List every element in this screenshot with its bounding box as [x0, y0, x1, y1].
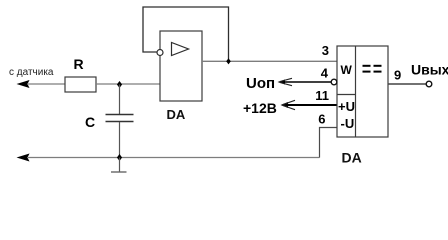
svg-text:+U: +U: [338, 99, 355, 114]
pin 4: circle, wire, arrow, label: [278, 66, 337, 86]
node junction at op-amp output / feedback: [226, 58, 231, 64]
op-amp DA (first stage): [157, 31, 202, 122]
comparator DA (second stage) body: [337, 46, 388, 166]
pin 3 label: [322, 43, 329, 58]
pin 9 label: [394, 68, 401, 83]
arrow: input line arrowhead: [17, 80, 30, 88]
capacitor C: [85, 85, 134, 158]
wire: input to resistor: [27, 83, 65, 85]
svg-text:DA: DA: [342, 150, 362, 166]
svg-text:4: 4: [321, 66, 329, 81]
node junction on rail (C): [117, 154, 122, 161]
node label: с датчика (from sensor): [9, 67, 54, 78]
node label Uвых: [411, 62, 448, 78]
pin 11: wire, arrow, label: [281, 88, 337, 110]
resistor R: [65, 56, 96, 92]
pin 6 label: [318, 112, 325, 127]
wire: op-amp output to comparator pin 3: [202, 60, 337, 62]
svg-text:9: 9: [394, 68, 401, 83]
svg-text:3: 3: [322, 43, 329, 58]
terminal: output circle: [426, 81, 432, 87]
wire: resistor to op-amp input: [96, 83, 160, 85]
wire: bottom common rail: [27, 157, 320, 159]
wire: rail to pin 6: [320, 128, 338, 158]
svg-text:с датчика: с датчика: [9, 67, 54, 78]
svg-text:+12В: +12В: [243, 100, 277, 116]
svg-text:11: 11: [315, 88, 329, 103]
svg-text:Uвых: Uвых: [411, 62, 448, 78]
svg-text:-U: -U: [341, 116, 355, 131]
svg-text:R: R: [74, 56, 84, 72]
arrow: bottom rail arrowhead: [17, 154, 30, 162]
svg-text:W: W: [341, 63, 353, 77]
node label Uоп: [246, 75, 275, 92]
svg-text:6: 6: [318, 112, 325, 127]
svg-text:Uоп: Uоп: [246, 75, 275, 92]
svg-text:C: C: [85, 114, 95, 130]
node label +12В: [243, 100, 277, 116]
node junction A (R / C): [117, 81, 122, 88]
wire: feedback loop: [143, 7, 229, 61]
ground: [111, 158, 127, 173]
svg-text:DA: DA: [167, 107, 186, 122]
wire: output to terminal: [388, 83, 426, 85]
